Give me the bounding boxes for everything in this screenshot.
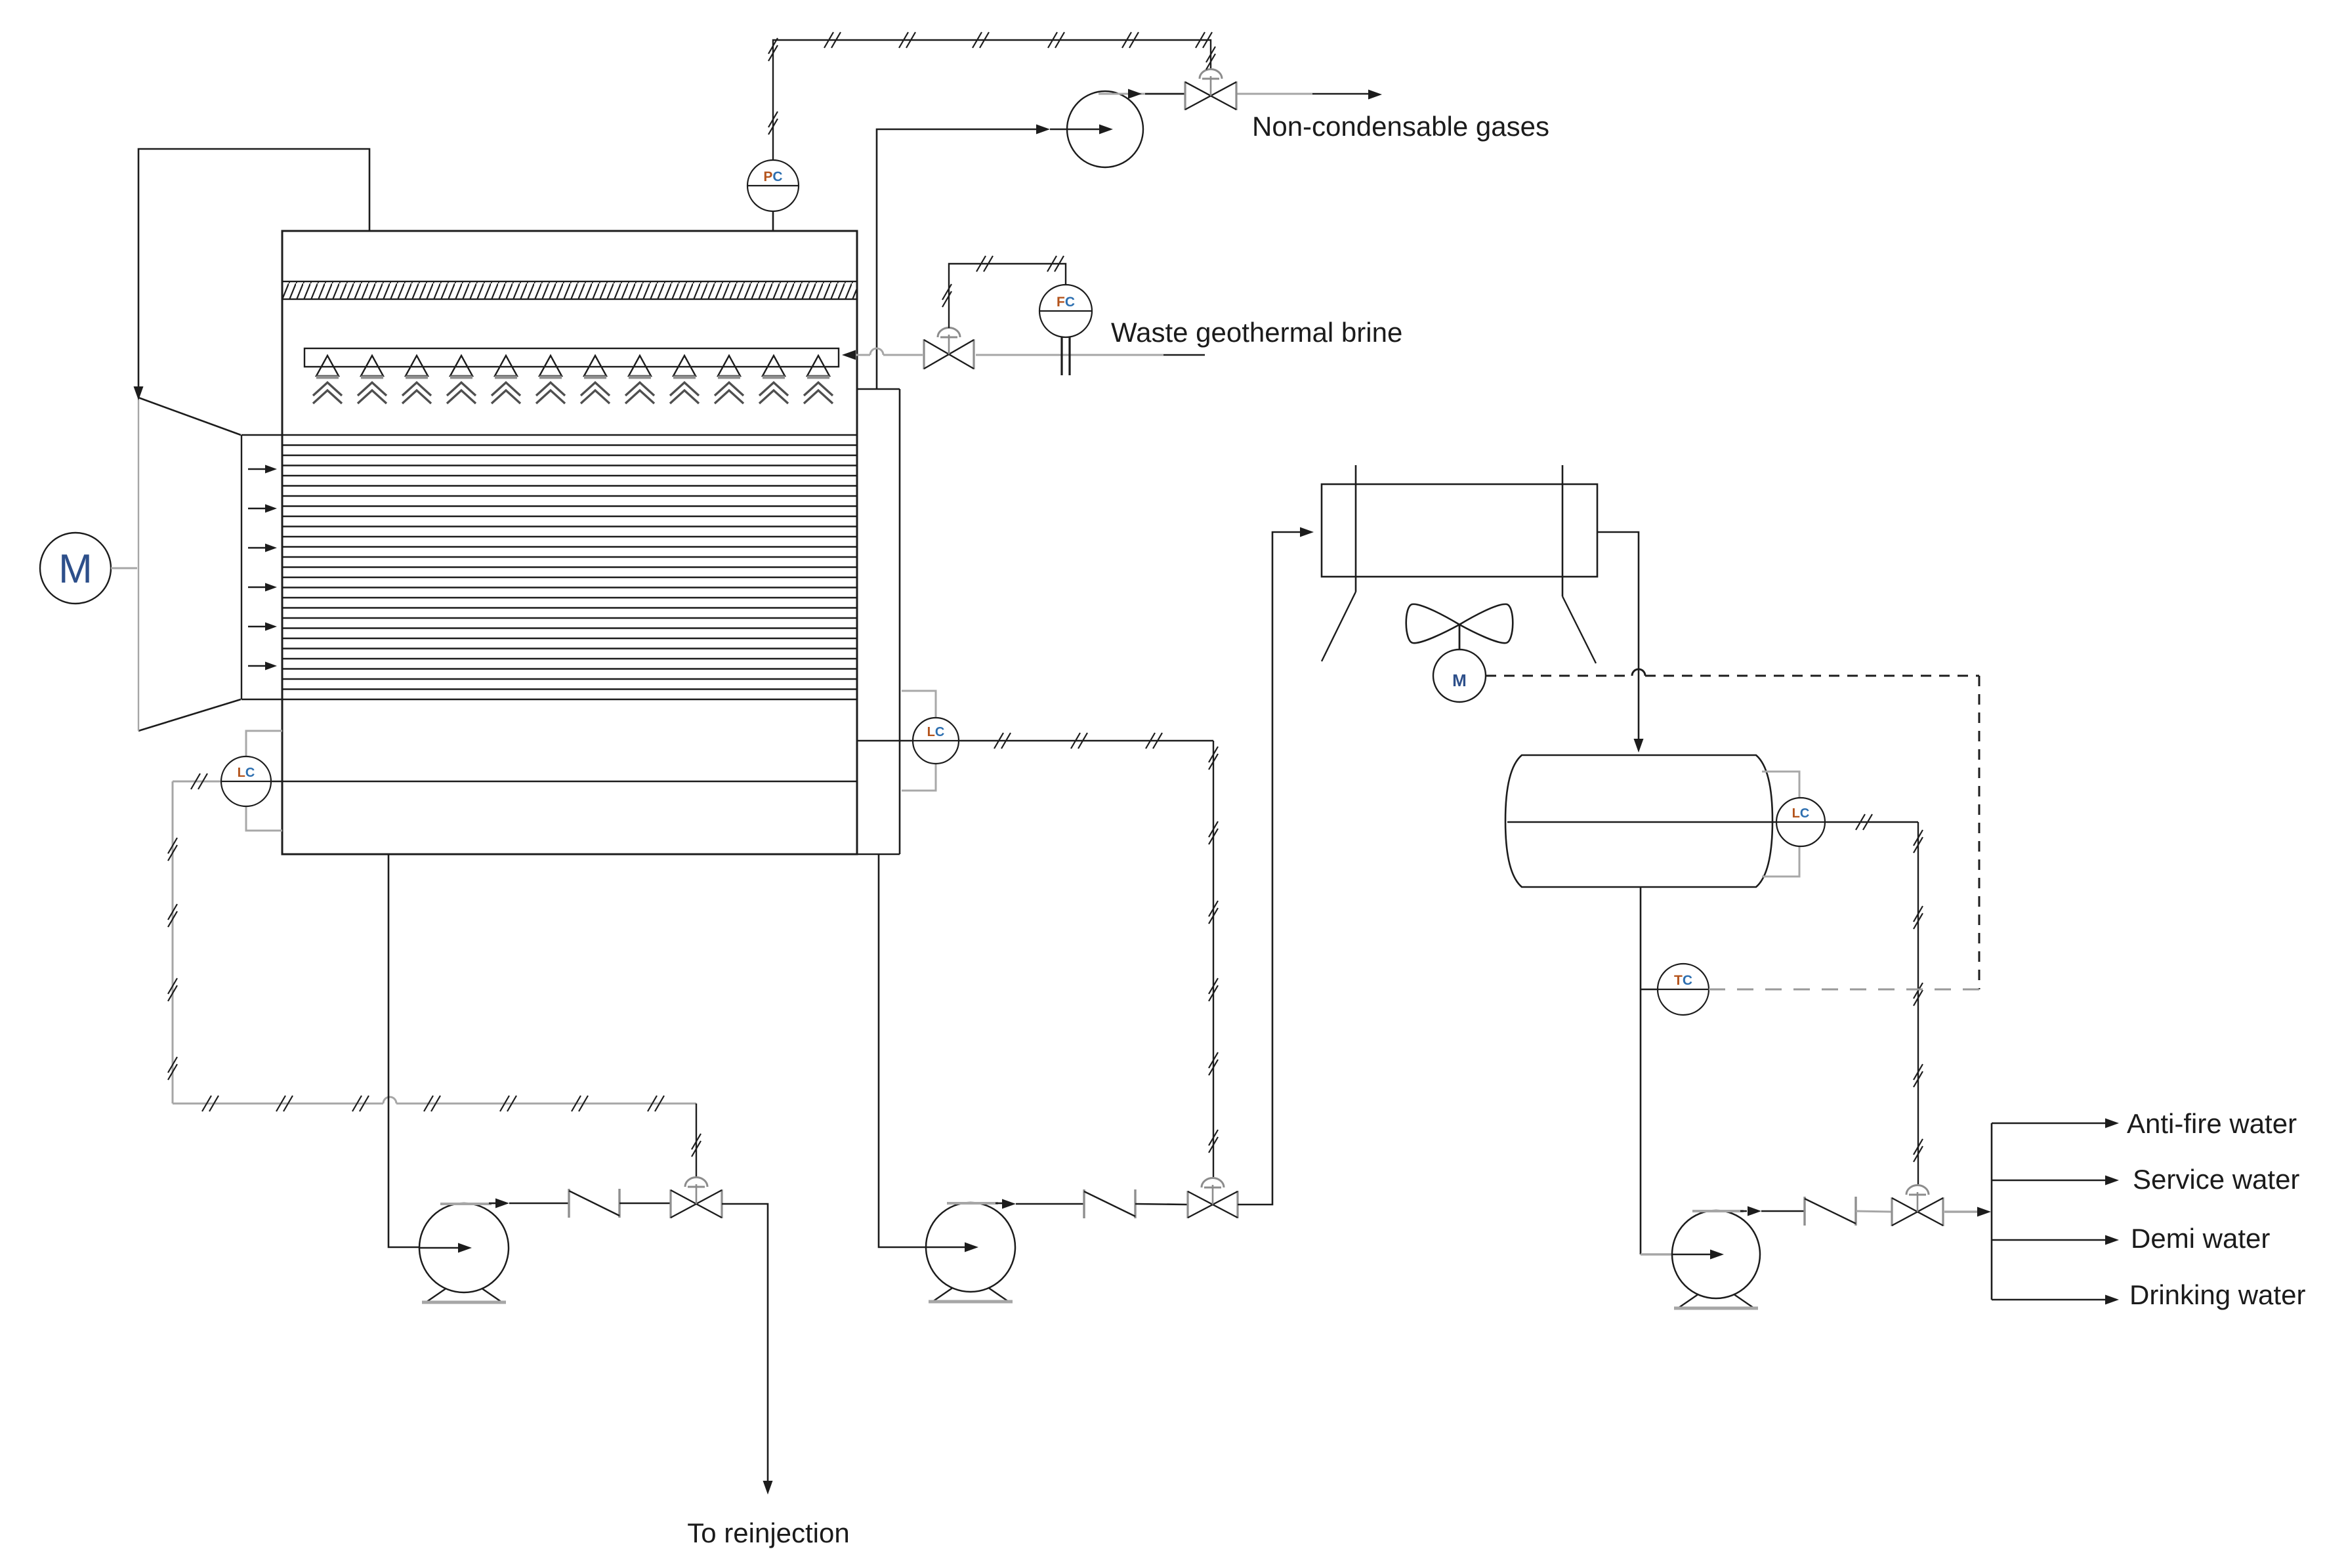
condenser fan bbox=[1406, 604, 1513, 649]
tank outlet line bbox=[1641, 887, 1710, 1260]
tube inlet flow arrows bbox=[248, 465, 277, 671]
TC signal (dashed) bbox=[1709, 989, 1979, 991]
fan motor M2 bbox=[1433, 650, 1486, 702]
product manifold bbox=[1992, 1119, 2119, 1305]
LC2 gauge taps bbox=[902, 691, 936, 791]
waste brine feed line bbox=[842, 348, 1205, 360]
fan motor control signal (dashed) bbox=[1486, 669, 1979, 989]
Waste geothermal brine label bbox=[1111, 317, 1402, 348]
svg-text:M: M bbox=[58, 547, 93, 592]
check valve CV3 bbox=[1805, 1197, 1856, 1226]
svg-text:Anti-fire water: Anti-fire water bbox=[2127, 1108, 2297, 1139]
Demi water label bbox=[2131, 1223, 2270, 1254]
svg-text:Non-condensable gases: Non-condensable gases bbox=[1252, 111, 1549, 142]
P2 discharge line bbox=[995, 1199, 1084, 1209]
CV3 to V3 line bbox=[1856, 1211, 1891, 1212]
compressor motor M1 bbox=[40, 533, 111, 604]
distillate jacket bbox=[857, 389, 900, 854]
svg-text:PC: PC bbox=[763, 169, 782, 184]
pump P3 bbox=[1672, 1210, 1760, 1308]
vacuum duct (jacket to vacuum pump) bbox=[877, 125, 1067, 390]
svg-text:FC: FC bbox=[1057, 295, 1075, 310]
PC pressure controller bbox=[747, 160, 799, 211]
control valve V3 bbox=[1892, 1186, 1943, 1227]
FC signal line bbox=[942, 256, 1066, 328]
control valve V1 bbox=[671, 1178, 722, 1219]
svg-text:Service water: Service water bbox=[2133, 1164, 2299, 1195]
svg-text:LC: LC bbox=[927, 725, 945, 739]
spray header pipe bbox=[304, 348, 839, 367]
vapor compressor housing bbox=[138, 398, 241, 731]
Service water label bbox=[2133, 1164, 2299, 1195]
svg-text:Demi water: Demi water bbox=[2131, 1223, 2270, 1254]
vessel liquid level line bbox=[221, 781, 856, 782]
LC1 signal line bbox=[168, 774, 701, 1177]
svg-text:LC: LC bbox=[238, 766, 255, 780]
FC flow controller bbox=[1039, 285, 1092, 337]
pump2 suction line bbox=[879, 854, 958, 1247]
PC signal line bbox=[768, 32, 1215, 160]
spray nozzles bbox=[313, 356, 833, 403]
control valve V-gas bbox=[1185, 69, 1236, 110]
LC2 level line and signal to valve bbox=[857, 733, 1218, 1177]
Non-condensable gases label bbox=[1252, 111, 1549, 142]
LC1 gauge taps bbox=[246, 731, 282, 831]
storage tank bbox=[1505, 755, 1772, 887]
check valve CV2 bbox=[1084, 1189, 1135, 1218]
Drinking water label bbox=[2129, 1279, 2305, 1310]
svg-text:LC: LC bbox=[1792, 806, 1810, 821]
pump P1 bbox=[419, 1203, 509, 1302]
svg-text:Waste geothermal brine: Waste geothermal brine bbox=[1111, 317, 1402, 348]
tank level line and LC3 signal bbox=[1507, 814, 1923, 1184]
demister pad (hatched band) bbox=[282, 281, 857, 299]
control valve V2 bbox=[1188, 1178, 1238, 1219]
pump1 suction line bbox=[388, 854, 451, 1247]
To reinjection label bbox=[687, 1517, 849, 1548]
air-cooled condenser bbox=[1322, 465, 1597, 663]
gas discharge line bbox=[1099, 89, 1382, 100]
tube bundle bbox=[241, 435, 856, 699]
svg-text:TC: TC bbox=[1674, 973, 1692, 988]
LC2 level controller bbox=[913, 718, 959, 764]
svg-text:Drinking water: Drinking water bbox=[2129, 1279, 2305, 1310]
pump P2 bbox=[926, 1203, 1015, 1302]
LC1 level controller bbox=[221, 756, 271, 806]
tube inlet channel box bbox=[241, 435, 242, 699]
P1 discharge line bbox=[489, 1199, 569, 1208]
P3 discharge line bbox=[1740, 1207, 1805, 1216]
PC stem bbox=[772, 211, 774, 231]
V3 to manifold line bbox=[1944, 1207, 1991, 1217]
svg-text:To reinjection: To reinjection bbox=[687, 1517, 849, 1548]
TC stem bbox=[1641, 989, 1658, 991]
CV2 to V2 line bbox=[1135, 1204, 1187, 1205]
condensate line to tank bbox=[1597, 532, 1644, 753]
vapor duct (vessel top to compressor) bbox=[134, 149, 370, 400]
evaporator vessel shell bbox=[282, 231, 857, 854]
reinjection line bbox=[722, 1204, 773, 1495]
check valve CV1 bbox=[569, 1189, 619, 1218]
motor shaft bbox=[111, 567, 137, 569]
svg-text:M: M bbox=[1452, 671, 1467, 690]
vacuum pump bbox=[1067, 91, 1143, 167]
LC3 gauge taps bbox=[1762, 772, 1799, 877]
LC3 level controller bbox=[1776, 798, 1825, 846]
Anti-fire water label bbox=[2127, 1108, 2297, 1139]
TC temperature controller bbox=[1658, 964, 1709, 1015]
condenser feed riser bbox=[1238, 527, 1314, 1205]
control valve V-brine bbox=[924, 328, 974, 370]
CV1 to V1 line bbox=[619, 1203, 671, 1205]
FC stem and orifice plate bbox=[1062, 337, 1070, 375]
